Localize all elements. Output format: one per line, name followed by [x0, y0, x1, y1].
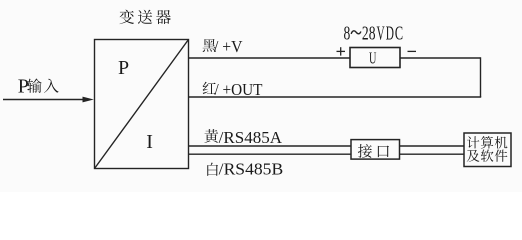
minus terminal of U [408, 50, 417, 52]
wire: box to U+ (black/+V) [189, 57, 351, 59]
label 计算机及软件 (computer & software) [467, 136, 508, 162]
power supply box U [350, 48, 400, 68]
svg-text:P: P [118, 57, 129, 79]
input arrowhead [83, 97, 94, 103]
svg-text:2: 2 [362, 22, 369, 44]
transmitter box [95, 40, 189, 169]
svg-text:U: U [369, 49, 376, 68]
wire: right vertical drop [480, 57, 482, 97]
wire: +OUT return (red) [189, 96, 482, 98]
svg-text:D: D [386, 22, 394, 44]
label 8~28VDC supply rating [344, 22, 404, 44]
wire: interface to computer B [400, 153, 465, 155]
svg-text:/RS485A: /RS485A [219, 128, 282, 147]
svg-text:P: P [18, 75, 29, 97]
svg-text:8: 8 [369, 22, 376, 44]
label 黄/RS485A [204, 129, 218, 143]
wire: RS485A to interface [189, 145, 352, 147]
svg-text:/RS485B: /RS485B [219, 160, 284, 179]
title 变送器 (transmitter) [120, 10, 171, 25]
label 黑/+V [203, 39, 216, 52]
svg-text:/ +OUT: / +OUT [215, 80, 263, 99]
svg-text:/ +V: / +V [214, 37, 243, 56]
tilde of 8~28VDC [351, 31, 361, 34]
svg-text:V: V [377, 22, 386, 44]
label 接口 (interface) [358, 144, 389, 158]
wire: U- to right corner [400, 57, 481, 59]
svg-text:C: C [395, 22, 403, 44]
interface box [351, 140, 400, 160]
wire: interface to computer A [400, 145, 465, 147]
transmitter diagonal divider [95, 40, 189, 169]
computer box [464, 133, 511, 167]
label 红/+OUT [203, 82, 216, 94]
label 白/RS485B [207, 163, 218, 176]
wire: RS485B to interface [189, 153, 352, 155]
svg-text:I: I [146, 131, 153, 153]
svg-text:8: 8 [344, 22, 351, 44]
input arrow shaft [3, 99, 85, 101]
plus terminal of U [337, 47, 417, 55]
